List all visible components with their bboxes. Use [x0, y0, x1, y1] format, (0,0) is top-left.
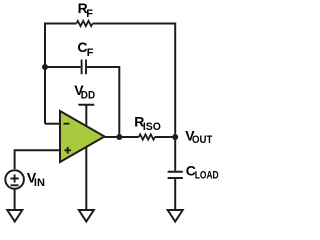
source plus symbol	[11, 174, 19, 182]
svg-text:OUT: OUT	[192, 134, 213, 146]
svg-text:LOAD: LOAD	[195, 170, 219, 182]
wire VOUT node down to CLOAD	[174, 137, 176, 171]
ground VIN	[7, 210, 22, 222]
svg-text:ISO: ISO	[143, 121, 161, 133]
wire inverting input	[45, 123, 60, 125]
capacitor CLOAD plates	[168, 172, 183, 178]
svg-text:F: F	[87, 47, 94, 59]
ground op-amp	[79, 210, 94, 222]
capacitor CF plates	[82, 60, 86, 75]
wire CF branch left	[45, 66, 81, 68]
node junction dot output	[116, 134, 122, 140]
wire op-amp output	[105, 136, 139, 138]
wire op-amp negative supply	[85, 147, 87, 211]
svg-text:F: F	[86, 8, 93, 20]
VDD supply T-bar and stem	[78, 105, 94, 128]
op-amp U1	[60, 111, 105, 162]
svg-text:IN: IN	[34, 177, 45, 189]
resistor RF zigzag	[77, 21, 93, 26]
ground CLOAD	[168, 210, 183, 222]
resistor RISO zigzag	[139, 134, 155, 139]
svg-text:DD: DD	[81, 90, 96, 102]
wire top right to output node	[93, 24, 176, 138]
source minus symbol	[11, 184, 19, 186]
wire VIN source to ground	[14, 189, 16, 210]
op-amp plus input symbol	[64, 147, 71, 154]
wire left rail and top feedback wire	[45, 24, 77, 124]
wire CLOAD to ground	[174, 179, 176, 210]
node junction dot CF-left	[42, 64, 48, 70]
node junction dot VOUT	[172, 134, 178, 140]
wire non-inverting input from VIN	[15, 150, 60, 169]
wire RISO to VOUT node	[155, 136, 175, 138]
op-amp minus input symbol	[64, 123, 70, 125]
source VIN circle	[5, 170, 24, 189]
wire CF branch right down to output	[87, 67, 119, 137]
